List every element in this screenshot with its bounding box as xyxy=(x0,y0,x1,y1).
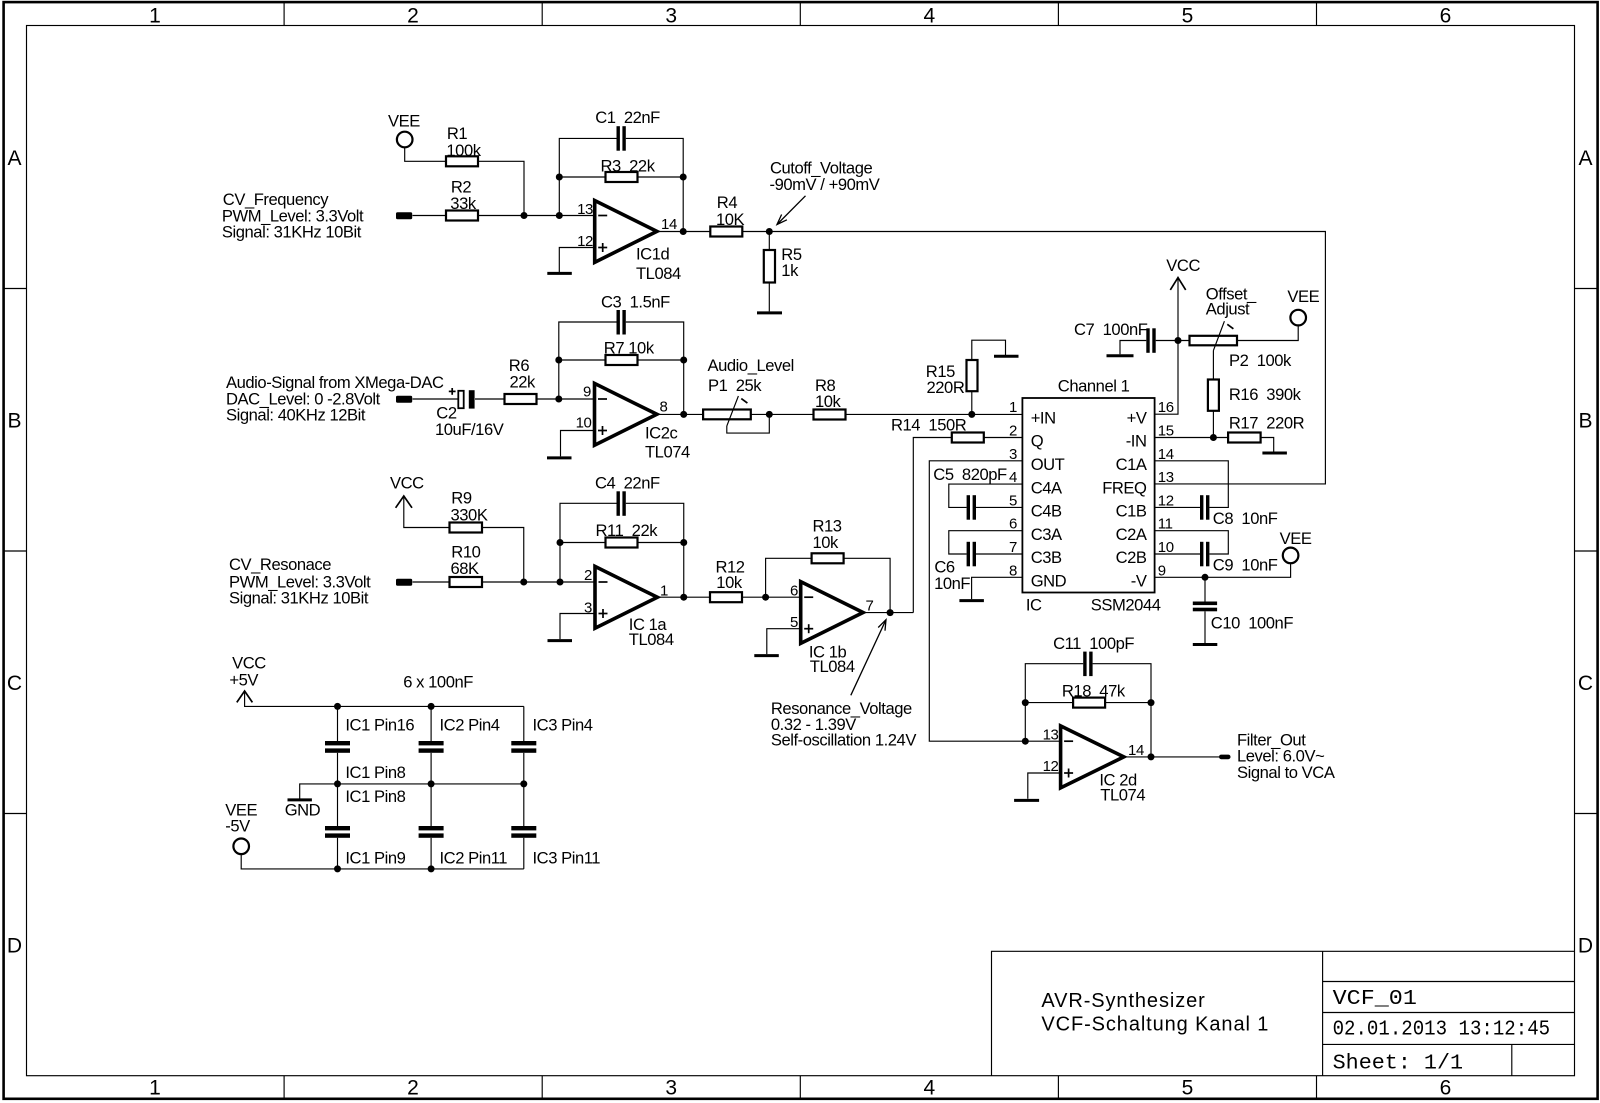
node VEE supply (right top) xyxy=(1287,287,1319,325)
resistor R18 xyxy=(1062,682,1126,708)
node Cutoff_Voltage label xyxy=(770,159,880,225)
resistor R2 xyxy=(446,177,478,220)
node VEE supply (right mid) xyxy=(1280,529,1312,563)
svg-text:B: B xyxy=(7,410,21,433)
svg-text:GND: GND xyxy=(285,801,321,820)
wire C10 to ground xyxy=(1204,611,1206,643)
svg-text:VCF-Schaltung Kanal 1: VCF-Schaltung Kanal 1 xyxy=(1041,1013,1269,1035)
wire -IN pin15 to R17 xyxy=(1155,437,1229,439)
capacitor bypass IC3 Pin4 xyxy=(511,716,592,753)
svg-text:Adjust: Adjust xyxy=(1206,299,1250,318)
svg-text:13: 13 xyxy=(1158,469,1174,486)
svg-text:A: A xyxy=(7,147,21,170)
svg-text:Channel 1: Channel 1 xyxy=(1058,376,1130,395)
capacitor bypass IC2 Pin11 xyxy=(419,826,508,867)
node junction R18 right xyxy=(1148,699,1155,706)
wire R3 row left xyxy=(559,176,605,178)
node Resonance_Voltage label xyxy=(771,620,916,750)
wire GND pin8 xyxy=(972,577,1023,599)
wire R7 row left xyxy=(559,359,606,361)
wire +V pin16 to VCC xyxy=(1155,278,1178,414)
node junction feedback/audio output xyxy=(680,411,687,418)
wire R7 row right xyxy=(638,359,684,361)
wire feedback left vertical xyxy=(559,138,616,215)
wire R13 right vertical xyxy=(844,558,891,612)
svg-text:9: 9 xyxy=(583,383,591,400)
svg-text:SSM2044: SSM2044 xyxy=(1091,596,1161,615)
svg-text:IC3 Pin11: IC3 Pin11 xyxy=(533,848,601,867)
svg-text:C1B: C1B xyxy=(1116,502,1147,521)
node cutoff voltage xyxy=(766,228,773,235)
ground IC2c xyxy=(547,456,572,459)
node junction R15 bottom xyxy=(968,411,975,418)
svg-text:220R: 220R xyxy=(927,378,965,397)
node junction IC1b output xyxy=(887,609,894,616)
wire col3 to VEE rail xyxy=(523,838,525,869)
svg-text:FREQ: FREQ xyxy=(1102,478,1147,497)
wire input to R2 xyxy=(413,215,447,217)
svg-text:Sheet: 1/1: Sheet: 1/1 xyxy=(1333,1052,1464,1075)
IC SSM2044 xyxy=(1009,376,1174,614)
wire C11 left vertical xyxy=(1025,664,1083,742)
wire IC1b output xyxy=(863,612,913,614)
ground pin8 xyxy=(959,599,984,602)
svg-text:3: 3 xyxy=(665,1077,677,1100)
node junction VEE rail col1 xyxy=(334,865,341,872)
svg-text:B: B xyxy=(1578,410,1592,433)
svg-text:C1 22nF: C1 22nF xyxy=(595,108,660,127)
op-amp IC2c xyxy=(576,383,690,461)
svg-text:IC1d: IC1d xyxy=(636,244,669,263)
wire VCC to R9 xyxy=(404,497,450,528)
wire IC1d output to R4 xyxy=(657,231,710,233)
resistor R14 xyxy=(891,416,984,443)
node junction R7 right xyxy=(680,357,687,364)
wire R3 row right xyxy=(638,176,684,178)
svg-text:R3 22k: R3 22k xyxy=(601,156,656,175)
node VCC supply (resonance) xyxy=(390,474,424,508)
svg-text:IC3 Pin4: IC3 Pin4 xyxy=(533,716,593,735)
svg-text:C3 1.5nF: C3 1.5nF xyxy=(601,292,670,311)
svg-text:5: 5 xyxy=(1182,4,1194,27)
wire R14 to SSM2044 Q xyxy=(984,437,1023,439)
wire IC2d output to Filter_Out xyxy=(1124,756,1219,758)
svg-text:Q: Q xyxy=(1031,432,1044,451)
svg-text:1: 1 xyxy=(149,1077,161,1100)
svg-text:TL084: TL084 xyxy=(629,630,674,649)
wire col2 lower xyxy=(430,784,432,826)
wire C2A pin11 dogleg xyxy=(1155,531,1229,554)
node junction VEE rail col2 xyxy=(428,865,435,872)
svg-text:Signal: 31KHz 10Bit: Signal: 31KHz 10Bit xyxy=(229,589,369,608)
node junction mid rail col3 xyxy=(520,780,527,787)
node junction feedback/resonance input xyxy=(557,579,564,586)
node VCC supply (decoupling) xyxy=(229,653,266,702)
svg-text:IC2c: IC2c xyxy=(645,424,677,443)
svg-text:10k: 10k xyxy=(815,392,842,411)
svg-text:C10 100nF: C10 100nF xyxy=(1211,614,1294,633)
wire P1 to R8 xyxy=(751,413,814,415)
svg-text:IC2 Pin11: IC2 Pin11 xyxy=(440,848,508,867)
node junction mid rail col1 xyxy=(334,780,341,787)
svg-text:A: A xyxy=(1578,147,1592,170)
ground IC1a xyxy=(548,639,573,642)
wire R11 row left xyxy=(560,542,606,544)
svg-text:VCF_01: VCF_01 xyxy=(1333,988,1417,1011)
node junction R9/R10 xyxy=(520,579,527,586)
node junction VCC rail col2 xyxy=(428,703,435,710)
node junction R12/R13 xyxy=(762,594,769,601)
svg-text:2: 2 xyxy=(407,1077,419,1100)
svg-text:VEE: VEE xyxy=(1280,529,1312,548)
svg-text:Self-oscillation 1.24V: Self-oscillation 1.24V xyxy=(771,731,916,750)
svg-text:IC1 Pin9: IC1 Pin9 xyxy=(345,848,405,867)
resistor R13 xyxy=(812,516,844,563)
svg-text:4: 4 xyxy=(923,1077,935,1100)
wire col3 lower xyxy=(523,784,525,826)
svg-text:TL074: TL074 xyxy=(1100,786,1145,805)
resistor R10 xyxy=(450,542,483,587)
wire col2 to mid rail xyxy=(430,753,432,784)
svg-text:CV_Resonace: CV_Resonace xyxy=(229,555,331,574)
wire GND mid rail xyxy=(300,784,524,799)
svg-text:VCC: VCC xyxy=(1166,256,1200,275)
wire R17 to ground xyxy=(1261,438,1274,452)
svg-text:VEE: VEE xyxy=(388,111,420,130)
svg-text:C4B: C4B xyxy=(1031,502,1062,521)
node junction R3 right xyxy=(680,174,687,181)
wire col2 to VEE rail xyxy=(430,838,432,869)
svg-text:02.01.2013 13:12:45: 02.01.2013 13:12:45 xyxy=(1333,1018,1551,1041)
wire feedback left vertical C4 xyxy=(560,503,617,582)
wire C4A pin4 dogleg xyxy=(949,484,1023,507)
node junction VCC/P2 xyxy=(1175,337,1182,344)
wire R18 row left xyxy=(1025,702,1073,704)
ground R5 xyxy=(757,311,782,314)
ground IC1d xyxy=(547,272,572,275)
svg-text:1k: 1k xyxy=(781,261,799,280)
resistor R3 xyxy=(601,156,656,182)
ground IC1b xyxy=(754,654,779,657)
wire R12 to IC1b inverting input xyxy=(742,596,801,598)
node junction R3 left xyxy=(556,174,563,181)
svg-text:-IN: -IN xyxy=(1126,432,1147,451)
wire col2 upper xyxy=(430,706,432,741)
svg-text:2: 2 xyxy=(584,567,592,584)
svg-text:2: 2 xyxy=(1009,423,1017,440)
wire VCC rail xyxy=(245,692,524,707)
wire R5 to ground xyxy=(768,283,770,312)
wire R16 to -IN net xyxy=(1212,411,1214,438)
node junction C10/-V xyxy=(1202,574,1209,581)
svg-text:R16 390k: R16 390k xyxy=(1229,385,1302,404)
wire IC1a noninverting input xyxy=(560,614,595,640)
wire C4 to feedback right vertical xyxy=(626,503,684,597)
node junction C11 loop / IC2d input xyxy=(1022,738,1029,745)
node junction R16/-IN xyxy=(1210,434,1217,441)
op-amp IC1d xyxy=(577,201,681,284)
wire C2B pin10 to C9 xyxy=(1155,553,1200,555)
svg-text:C4 22nF: C4 22nF xyxy=(595,474,660,493)
svg-text:Audio_Level: Audio_Level xyxy=(708,356,794,375)
svg-text:1: 1 xyxy=(1009,399,1017,416)
wire R1 to input net xyxy=(478,161,524,215)
wire R9 to input net xyxy=(482,528,524,583)
wire feedback left vertical C3 xyxy=(559,322,617,399)
svg-text:68K: 68K xyxy=(451,559,480,578)
wire R18 row right xyxy=(1105,702,1151,704)
svg-text:TL084: TL084 xyxy=(810,657,855,676)
resistor R1 xyxy=(446,124,482,166)
svg-text:10uF/16V: 10uF/16V xyxy=(435,420,504,439)
svg-text:GND: GND xyxy=(1031,572,1067,591)
wire IC1b output to Q pin2 xyxy=(913,438,952,613)
svg-text:C3B: C3B xyxy=(1031,548,1062,567)
svg-text:VEE: VEE xyxy=(1287,287,1319,306)
wire R6 to IC2c inverting input xyxy=(537,398,595,400)
wire R8 to SSM2044 +IN xyxy=(846,413,1023,415)
svg-text:C7 100nF: C7 100nF xyxy=(1074,320,1148,339)
wire IC2c noninverting input xyxy=(561,431,595,457)
wire col1 to mid rail xyxy=(337,753,339,784)
wire -V pin9 to VEE xyxy=(1155,563,1291,577)
svg-text:10K: 10K xyxy=(716,210,745,229)
ground GND mid rail xyxy=(285,800,321,820)
capacitor C9 xyxy=(1200,542,1278,575)
svg-text:6: 6 xyxy=(1440,4,1452,27)
resistor R17 xyxy=(1228,414,1305,443)
potentiometer P1 xyxy=(703,356,794,433)
capacitor C3 xyxy=(601,292,670,334)
resistor R6 xyxy=(505,356,537,404)
svg-text:R7 10k: R7 10k xyxy=(604,339,655,358)
resistor R5 xyxy=(764,245,802,283)
svg-text:Signal: 40KHz 12Bit: Signal: 40KHz 12Bit xyxy=(226,406,366,425)
node labels IC1 Pin8 xyxy=(345,763,405,806)
node junction feedback/IC1a output xyxy=(680,594,687,601)
svg-text:2: 2 xyxy=(407,4,419,27)
node junction R11 left xyxy=(557,539,564,546)
node Filter_Out terminal xyxy=(1219,730,1336,782)
svg-text:5: 5 xyxy=(1182,1077,1194,1100)
wire P2 right to VEE xyxy=(1237,325,1298,340)
node junction R7 left xyxy=(555,357,562,364)
capacitor bypass IC1 Pin16 xyxy=(325,716,414,753)
wire col1 to VEE rail xyxy=(337,838,339,869)
ground C7 xyxy=(1107,354,1134,357)
capacitor C11 xyxy=(1053,634,1134,676)
wire C5 to C4B pin5 xyxy=(976,506,1022,508)
svg-text:VCC: VCC xyxy=(390,474,424,493)
wire R11 row right xyxy=(638,542,684,544)
capacitor C7 xyxy=(1074,320,1156,353)
svg-text:C11 100pF: C11 100pF xyxy=(1053,634,1134,653)
resistor R4 xyxy=(710,193,744,237)
capacitor C2 (electrolytic) xyxy=(435,388,504,439)
svg-text:1: 1 xyxy=(149,4,161,27)
svg-text:TL084: TL084 xyxy=(636,264,681,283)
svg-text:AVR-Synthesizer: AVR-Synthesizer xyxy=(1041,990,1205,1012)
svg-text:+IN: +IN xyxy=(1031,408,1056,427)
svg-text:C: C xyxy=(7,672,22,695)
wire IC2d noninverting input xyxy=(1028,773,1061,799)
svg-text:13: 13 xyxy=(577,201,593,218)
node junction mid rail col2 xyxy=(428,780,435,787)
svg-text:-V: -V xyxy=(1131,572,1147,591)
ground IC2d xyxy=(1014,799,1039,802)
wire R15 to +IN net xyxy=(971,391,973,414)
wire R10 to IC1a inverting input xyxy=(482,581,595,583)
svg-text:+V: +V xyxy=(1127,408,1147,427)
node VEE supply (top left) xyxy=(388,111,420,147)
node junction C11/IC2d output xyxy=(1148,753,1155,760)
wire IC1d noninverting input xyxy=(559,248,594,273)
svg-text:C1A: C1A xyxy=(1116,455,1148,474)
wire col1 upper xyxy=(337,706,339,741)
svg-text:C3A: C3A xyxy=(1031,525,1063,544)
resistor R12 xyxy=(710,557,745,602)
svg-text:Signal to VCA: Signal to VCA xyxy=(1237,763,1336,782)
wire C1B pin12 to C8 xyxy=(1155,506,1200,508)
capacitor bypass IC3 Pin11 xyxy=(511,826,600,867)
svg-text:8: 8 xyxy=(660,398,668,415)
svg-text:10: 10 xyxy=(576,415,592,432)
svg-text:10k: 10k xyxy=(716,573,743,592)
svg-text:+5V: +5V xyxy=(229,670,258,689)
wire VEE rail xyxy=(241,854,524,869)
svg-text:TL074: TL074 xyxy=(645,442,690,461)
node junction R1/R2 xyxy=(521,212,528,219)
ground C10 xyxy=(1193,643,1218,646)
resistor R15 xyxy=(926,360,978,397)
svg-text:100k: 100k xyxy=(446,141,481,160)
wire R15 top to ground xyxy=(972,340,1006,360)
capacitor C8 xyxy=(1200,495,1278,528)
capacitor bypass IC1 Pin9 xyxy=(325,826,406,867)
resistor R11 xyxy=(596,521,659,548)
capacitor bypass IC2 Pin4 xyxy=(419,716,500,753)
wire C3A pin6 dogleg xyxy=(949,531,1023,554)
svg-text:10k: 10k xyxy=(813,533,840,552)
svg-text:Signal: 31KHz 10Bit: Signal: 31KHz 10Bit xyxy=(222,222,362,241)
wire C7 left to ground xyxy=(1120,341,1146,355)
wire cutoff node to R5 xyxy=(768,232,770,251)
wire P2 wiper to R16 xyxy=(1212,351,1214,380)
node Audio input terminal xyxy=(226,373,444,425)
svg-text:P1 25k: P1 25k xyxy=(708,376,762,395)
svg-text:C2B: C2B xyxy=(1116,548,1147,567)
resistor R9 xyxy=(450,489,488,533)
resistor R16 xyxy=(1208,380,1302,411)
node CV_Frequency input terminal xyxy=(222,190,412,241)
svg-text:C: C xyxy=(1578,672,1593,695)
node junction feedback/audio input xyxy=(555,396,562,403)
wire OUT pin3 to IC2d xyxy=(929,461,1060,741)
wire input to R10 xyxy=(413,581,450,583)
ground R17 xyxy=(1262,452,1287,455)
svg-text:IC: IC xyxy=(1026,596,1042,615)
svg-text:22k: 22k xyxy=(510,373,537,392)
svg-text:C9 10nF: C9 10nF xyxy=(1213,556,1278,575)
node junction feedback/input xyxy=(556,212,563,219)
wire C7 to P2 xyxy=(1156,340,1190,342)
capacitor C10 xyxy=(1193,602,1294,633)
svg-text:6 x 100nF: 6 x 100nF xyxy=(403,673,473,692)
svg-text:R11 22k: R11 22k xyxy=(596,521,659,540)
title block outline xyxy=(992,951,1575,1075)
svg-text:C2A: C2A xyxy=(1116,525,1148,544)
wire IC1a output to R12 xyxy=(657,596,710,598)
svg-text:13: 13 xyxy=(1043,726,1059,743)
wire input to C2 xyxy=(413,398,458,400)
wire col1 lower xyxy=(337,784,339,826)
wire col3 upper xyxy=(523,706,525,741)
svg-text:14: 14 xyxy=(661,216,677,233)
node VEE supply (decoupling) xyxy=(225,801,257,855)
node junction feedback/output xyxy=(680,228,687,235)
capacitor C4 xyxy=(595,474,660,516)
wire C2 to R6 xyxy=(475,398,505,400)
wire IC2c output to P1 xyxy=(657,413,703,415)
ground R15 xyxy=(994,355,1019,358)
node junction R18 left xyxy=(1022,699,1029,706)
svg-text:6: 6 xyxy=(1440,1077,1452,1100)
wire C1A pin14 dogleg xyxy=(1155,461,1229,508)
node CV_Resonace input terminal xyxy=(229,555,412,608)
wire C11 right vertical xyxy=(1093,664,1151,757)
capacitor C1 xyxy=(595,108,660,151)
op-amp IC1b xyxy=(790,582,873,677)
node junction VCC rail col1 xyxy=(334,703,341,710)
svg-text:3: 3 xyxy=(665,4,677,27)
svg-text:R18 47k: R18 47k xyxy=(1062,682,1126,701)
svg-text:C5 820pF: C5 820pF xyxy=(933,465,1007,484)
svg-text:33k: 33k xyxy=(450,194,477,213)
svg-text:D: D xyxy=(1578,935,1593,958)
op-amp IC1a xyxy=(584,566,674,649)
svg-text:P2 100k: P2 100k xyxy=(1229,351,1292,370)
node junction P1 wiper xyxy=(766,411,773,418)
svg-text:-5V: -5V xyxy=(225,817,250,836)
svg-text:R14 150R: R14 150R xyxy=(891,416,967,435)
wire C3 to feedback right vertical xyxy=(626,322,684,414)
wire R13 left vertical xyxy=(766,558,812,597)
svg-text:330K: 330K xyxy=(451,505,488,524)
svg-text:IC1 Pin8: IC1 Pin8 xyxy=(345,787,405,806)
svg-text:D: D xyxy=(7,935,22,958)
svg-text:-90mV / +90mV: -90mV / +90mV xyxy=(770,175,880,194)
potentiometer P2 xyxy=(1190,284,1293,370)
svg-text:4: 4 xyxy=(923,4,935,27)
resistor R7 xyxy=(604,339,655,365)
svg-text:IC1 Pin16: IC1 Pin16 xyxy=(345,716,414,735)
wire R2 to IC1d inverting input xyxy=(478,215,595,217)
node junction R11 right xyxy=(680,539,687,546)
wire -V to C10 xyxy=(1204,577,1206,601)
svg-text:IC1 Pin8: IC1 Pin8 xyxy=(345,763,405,782)
wire IC1b noninverting input xyxy=(767,629,801,654)
node VCC supply (right) xyxy=(1166,256,1200,290)
svg-text:C8 10nF: C8 10nF xyxy=(1213,509,1278,528)
svg-text:IC2 Pin4: IC2 Pin4 xyxy=(440,716,500,735)
svg-text:R17 220R: R17 220R xyxy=(1229,414,1305,433)
svg-text:10nF: 10nF xyxy=(934,574,970,593)
wire R4 to cutoff node xyxy=(742,231,769,233)
svg-text:6: 6 xyxy=(790,582,798,599)
capacitor C5 xyxy=(933,465,1007,520)
capacitor C6 xyxy=(934,542,976,593)
svg-text:OUT: OUT xyxy=(1031,455,1065,474)
